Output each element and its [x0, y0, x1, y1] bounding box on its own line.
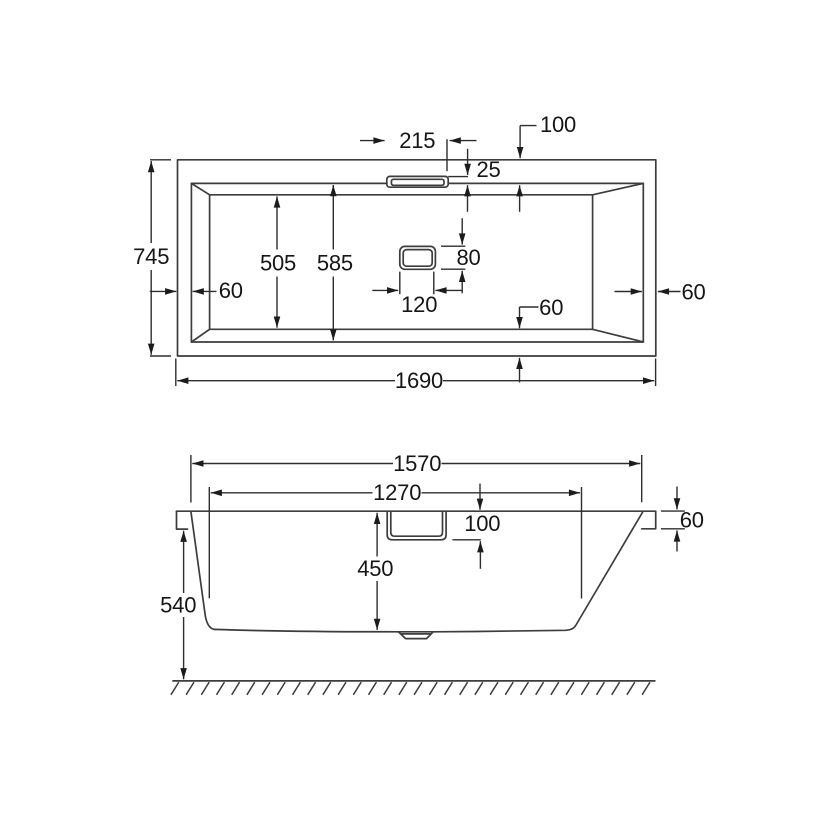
- plan view: inner rim edge (broken at overflow slot): [191, 183, 643, 342]
- svg-text:450: 450: [357, 556, 393, 581]
- svg-text:60: 60: [680, 508, 704, 533]
- side view: overflow recess inner: [391, 511, 443, 536]
- dimension 100 recess depth: [452, 484, 480, 569]
- side view: tub profile: [177, 510, 656, 512]
- svg-text:60: 60: [219, 278, 243, 303]
- dimension 1270 basin length: [209, 487, 581, 599]
- svg-text:505: 505: [260, 251, 296, 276]
- svg-text:120: 120: [401, 292, 437, 317]
- svg-text:1690: 1690: [395, 368, 443, 393]
- plan view: corner slope lines: [191, 183, 643, 342]
- dimension 745 left side: [150, 160, 171, 356]
- waste drain (plan, centre): [400, 246, 436, 269]
- dimension 540 height to floor: [183, 531, 185, 680]
- svg-text:1270: 1270: [373, 480, 421, 505]
- svg-text:100: 100: [464, 511, 500, 536]
- dimension 1570 rim length: [191, 455, 642, 503]
- dimension 25 slot offset: [448, 149, 468, 212]
- svg-text:215: 215: [399, 128, 435, 153]
- side view: waste drain bump under bottom: [398, 632, 433, 639]
- dimension 60 bottom rim leader: [520, 307, 539, 383]
- dimension 80 drain: [441, 218, 465, 293]
- dimension 215 overflow slot: [360, 139, 477, 171]
- svg-text:585: 585: [317, 251, 353, 276]
- dimension 60 left rim width: [150, 290, 217, 292]
- plan view: basin bottom rectangle: [210, 195, 593, 329]
- dimension 60 right rim width: [615, 291, 681, 293]
- side view: left wall, bottom and right slope: [191, 512, 643, 632]
- side view: left rim lip: [177, 511, 188, 529]
- dimension 505 basin width: [276, 196, 278, 327]
- ground hatching: [171, 682, 650, 695]
- svg-text:745: 745: [133, 244, 169, 269]
- dimension 120 drain: [372, 272, 462, 295]
- svg-text:100: 100: [540, 112, 576, 137]
- dimension 1690 overall length: [176, 359, 656, 387]
- dimension 100 top leader: [520, 126, 537, 212]
- dimension 60 rim edge height: [661, 487, 685, 552]
- side view: overflow recess outer: [387, 511, 446, 540]
- svg-text:80: 80: [456, 245, 480, 270]
- dimension 450 internal depth: [376, 513, 378, 630]
- svg-text:25: 25: [476, 157, 500, 182]
- dimension 585 rim inner width: [332, 185, 334, 340]
- overflow slot (plan, top edge): [387, 176, 448, 187]
- svg-text:60: 60: [539, 295, 563, 320]
- svg-text:540: 540: [160, 592, 196, 617]
- svg-text:1570: 1570: [393, 451, 441, 476]
- svg-text:60: 60: [681, 279, 705, 304]
- side view: right rim lip: [642, 511, 656, 529]
- ground line: [172, 680, 655, 682]
- plan view: outer rim rectangle: [178, 160, 656, 356]
